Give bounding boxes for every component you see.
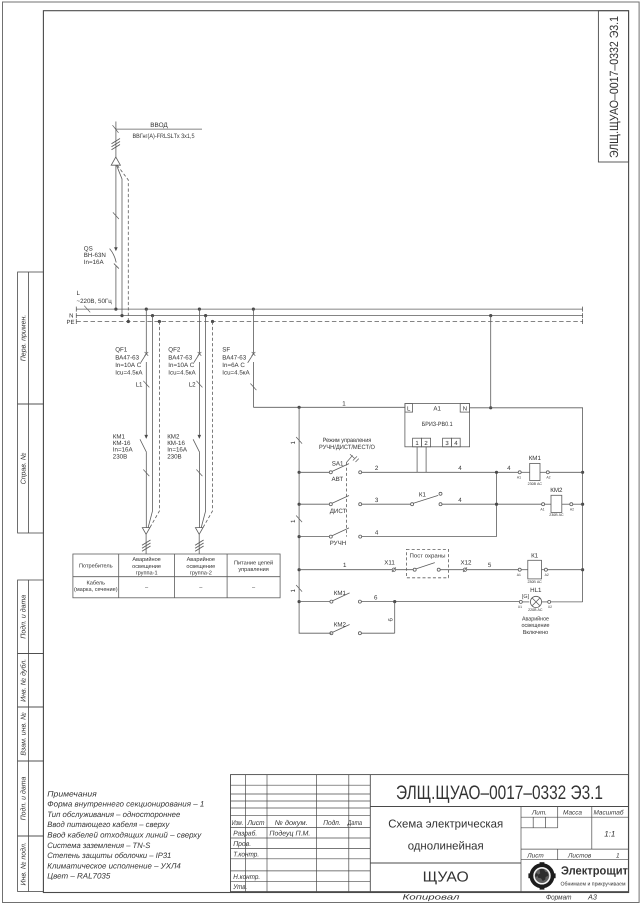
svg-text:1: 1 (290, 589, 297, 593)
feeder group 2: wire L from bus (198, 309, 200, 354)
svg-text:управления: управления (238, 567, 269, 573)
feeder group 1: wire L from bus (145, 309, 147, 354)
svg-text:Аварийное: Аварийное (522, 615, 550, 622)
lit table labels (526, 810, 624, 860)
svg-text:КМ1: КМ1 (334, 590, 347, 597)
node wire1 label (342, 400, 346, 407)
svg-text:КМ2: КМ2 (550, 487, 563, 494)
wire N feeder1 (148, 316, 152, 528)
wire row3 to KM2 coil (497, 503, 542, 505)
svg-text:Перв. примен.: Перв. примен. (21, 315, 28, 362)
svg-text:L2: L2 (189, 382, 196, 389)
wire mark tick on input (113, 212, 119, 219)
svg-text:SF: SF (222, 347, 230, 354)
svg-text:ВН-63N: ВН-63N (84, 252, 106, 259)
svg-text:К1: К1 (531, 553, 539, 560)
wire row7 up to row6 (394, 602, 396, 634)
svg-text:освещение: освещение (132, 564, 161, 570)
wire mark tick feeder1 (143, 470, 149, 477)
svg-text:КМ2: КМ2 (334, 622, 347, 629)
label KM1 (113, 433, 134, 460)
breaker QF1 (141, 352, 149, 438)
label lamp function (522, 615, 551, 635)
svg-text:5: 5 (488, 562, 492, 569)
wire N branch from termination (117, 165, 123, 315)
svg-text:4: 4 (458, 497, 462, 504)
svg-text:освещение: освещение (522, 623, 551, 629)
svg-text:PE: PE (66, 319, 74, 326)
cable exit triangle feeder1 (142, 528, 150, 554)
svg-text:Цвет – RAL7035: Цвет – RAL7035 (47, 872, 111, 881)
svg-text:Формат: Формат (546, 893, 572, 902)
label QS (84, 246, 106, 267)
svg-text:SA1: SA1 (332, 460, 344, 467)
node ВВОД label line (113, 125, 203, 133)
label QF2 (168, 347, 196, 377)
contact SA1 ДИСТ (row 3) (299, 496, 411, 506)
svg-text:Х2: Х2 (548, 605, 552, 609)
change table rows (231, 785, 371, 881)
svg-text:4: 4 (375, 529, 379, 536)
svg-text:ЭЛЩ.ЩУАО–0017–0332 Э3.1: ЭЛЩ.ЩУАО–0017–0332 Э3.1 (607, 16, 621, 158)
svg-text:Х1: Х1 (518, 605, 522, 609)
svg-text:Х12: Х12 (460, 560, 472, 567)
label SF (222, 347, 250, 377)
svg-text:N: N (463, 406, 467, 413)
svg-text:Дата: Дата (347, 820, 362, 827)
svg-text:Электрощит: Электрощит (561, 864, 628, 878)
svg-text:Подп.: Подп. (323, 819, 341, 827)
name cell divider (370, 862, 521, 864)
svg-text:Лит.: Лит. (531, 810, 547, 817)
SA1 link line (dashed) (345, 463, 347, 537)
svg-text:1: 1 (343, 562, 347, 569)
svg-text:In=6А C: In=6А C (222, 362, 245, 369)
svg-text:QF2: QF2 (168, 347, 181, 354)
label L bus (77, 290, 113, 305)
wire PE feeder2 (dashed) (203, 322, 213, 528)
wire input L vertical (115, 122, 117, 158)
svg-text:КМ1: КМ1 (529, 455, 542, 462)
wire A1 pin1 down (416, 447, 418, 473)
svg-text:4: 4 (507, 465, 511, 472)
vertical tie net 4 (496, 472, 498, 536)
svg-text:Схема электрическая: Схема электрическая (388, 819, 503, 831)
svg-text:In=16А: In=16А (84, 259, 105, 266)
svg-text:230В: 230В (113, 453, 127, 460)
svg-text:Взам. инв. №: Взам. инв. № (21, 712, 28, 756)
svg-text:ВВГнг(А)-FRLSLТх 3х1,5: ВВГнг(А)-FRLSLТх 3х1,5 (133, 133, 195, 140)
contact SA1 РУЧН (row 4) (299, 528, 496, 538)
svg-text:А1: А1 (540, 507, 544, 511)
cable входной hatch (112, 139, 121, 150)
svg-text:группа-1: группа-1 (136, 570, 158, 576)
svg-text:Изм.: Изм. (232, 820, 244, 827)
svg-text:Ввод питающего кабеля – сверху: Ввод питающего кабеля – сверху (47, 820, 170, 829)
wire 2 (417, 471, 496, 473)
svg-text:Icu=4.5кА: Icu=4.5кА (222, 370, 250, 377)
svg-text:Т.контр.: Т.контр. (233, 851, 259, 858)
wire PE feeder1 (dashed) (150, 322, 160, 528)
svg-text:Утв.: Утв. (232, 884, 247, 891)
security post contact (396, 563, 463, 572)
svg-text:А2: А2 (545, 573, 549, 577)
svg-text:ВА47-63: ВА47-63 (222, 354, 246, 361)
node L2 (196, 381, 202, 388)
security post dashed box (407, 549, 449, 577)
svg-text:Инв. № дубл.: Инв. № дубл. (20, 659, 28, 702)
svg-text:Система заземления – TN-S: Система заземления – TN-S (47, 841, 151, 850)
left control rail (net 1) (299, 407, 331, 633)
bus PE (dashed) (76, 319, 582, 324)
lamp HL1 (519, 596, 582, 607)
wire 1 horizontal to A1 (253, 406, 405, 408)
svg-text:Х11: Х11 (384, 560, 395, 567)
svg-text:Подеуц П.М.: Подеуц П.М. (269, 830, 310, 838)
svg-text:ДИСТ: ДИСТ (330, 508, 347, 515)
svg-text:Примечания: Примечания (47, 789, 97, 798)
svg-text:230В АС: 230В АС (528, 482, 543, 486)
svg-text:In=10А C: In=10А C (168, 362, 195, 369)
cable termination triangle (111, 157, 120, 165)
breaker QF2 (194, 352, 202, 438)
header labels (232, 819, 362, 827)
svg-text:1: 1 (342, 400, 346, 407)
svg-text:А1: А1 (517, 573, 521, 577)
junction dot N rail (489, 406, 492, 409)
svg-text:Н.контр.: Н.контр. (233, 874, 260, 881)
svg-text:230В АС: 230В АС (549, 513, 564, 517)
node L1 (143, 381, 149, 388)
wire mark ticks on rail (296, 437, 302, 592)
svg-text:А1: А1 (517, 476, 521, 480)
wire to K1 coil (467, 569, 518, 571)
svg-text:Подп. и дата: Подп. и дата (20, 595, 28, 639)
svg-text:Масса: Масса (563, 810, 582, 817)
wire N bus to N rail (490, 316, 492, 408)
wire mark tick feeder2 (196, 470, 202, 477)
consumers table (73, 554, 280, 598)
svg-text:ВА47-63: ВА47-63 (115, 354, 139, 361)
title block outline (231, 775, 629, 892)
svg-text:АВТ: АВТ (332, 476, 344, 483)
svg-text:ВВОД: ВВОД (150, 122, 168, 129)
wire N rail horizontal and right rail (470, 408, 583, 602)
svg-text:1: 1 (290, 519, 297, 523)
svg-text:(марка, сечение): (марка, сечение) (74, 586, 118, 593)
svg-text:1:1: 1:1 (604, 830, 615, 839)
svg-text:~220В, 50Гц: ~220В, 50Гц (77, 298, 113, 305)
svg-text:Справ. №: Справ. № (21, 452, 28, 484)
svg-text:Потребитель: Потребитель (79, 563, 113, 570)
svg-text:Лист: Лист (247, 820, 265, 827)
svg-text:2: 2 (375, 465, 379, 472)
wire mark tick on L bus (84, 306, 90, 313)
switch QS (110, 247, 119, 309)
svg-text:Лист: Лист (526, 852, 544, 859)
svg-text:Подп. и дата: Подп. и дата (20, 776, 28, 820)
svg-text:1: 1 (290, 441, 297, 445)
wire mark tick SF (250, 384, 256, 391)
wire A1 pin2 down (425, 447, 427, 473)
bottom margin labels (403, 893, 597, 902)
label PE bus (66, 319, 74, 326)
relay contact K1 (row 3) (411, 492, 497, 505)
wire N feeder2 (201, 316, 205, 528)
svg-text:А1: А1 (433, 405, 441, 412)
svg-text:Включено: Включено (523, 629, 549, 636)
svg-text:ВА47-63: ВА47-63 (168, 354, 192, 361)
wire L down to QS (115, 165, 117, 249)
svg-text:[G]: [G] (522, 594, 530, 600)
svg-text:Питание цепей: Питание цепей (234, 560, 273, 567)
terminal X12 (463, 567, 467, 572)
contactor coil KM2 (542, 495, 583, 512)
contact KM1 aux (330, 593, 519, 603)
row 7: contact KM2 aux (330, 625, 395, 635)
bus L (76, 307, 582, 312)
svg-text:Кабель: Кабель (86, 580, 105, 587)
row 5: wire net1 to X11 (299, 569, 392, 571)
svg-text:HL1: HL1 (530, 587, 542, 594)
svg-text:К1: К1 (419, 492, 427, 499)
svg-text:Копировал: Копировал (403, 893, 461, 902)
junction dots on buses (114, 308, 492, 324)
name of drawing (388, 819, 503, 853)
label QF1 (115, 347, 143, 377)
logo Электрощит (528, 862, 555, 889)
change table columns (245, 775, 247, 892)
svg-text:А3: А3 (587, 893, 597, 902)
breaker SF (248, 352, 256, 407)
svg-text:освещение: освещение (186, 564, 215, 570)
junction dot row6 (393, 600, 396, 603)
relay coil K1 (518, 560, 582, 579)
svg-text:Icu=4.5кА: Icu=4.5кА (168, 370, 196, 377)
svg-text:Листов: Листов (567, 852, 592, 859)
cable hatch feeder1 (142, 540, 151, 551)
svg-text:Icu=4.5кА: Icu=4.5кА (115, 370, 143, 377)
svg-text:Разраб.: Разраб. (233, 830, 257, 838)
contactor KM2 main contact (193, 435, 201, 528)
top-right designation strip (598, 11, 628, 162)
svg-text:L: L (77, 290, 81, 297)
svg-text:Пост охраны: Пост охраны (410, 553, 446, 559)
label Режим управления (319, 437, 375, 451)
svg-text:Форма внутреннего секционирова: Форма внутреннего секционирования – 1 (47, 800, 204, 809)
svg-text:6: 6 (388, 618, 395, 622)
designation row bottom (370, 806, 628, 808)
left margin boxes (18, 272, 44, 892)
svg-text:220В АС: 220В АС (528, 608, 543, 612)
svg-text:Пров.: Пров. (233, 841, 251, 848)
svg-text:Степень защиты оболочки – IP31: Степень защиты оболочки – IP31 (47, 851, 171, 860)
svg-text:Обнимаем и прикручиваем: Обнимаем и прикручиваем (561, 882, 626, 888)
contact SA1 АВТ (row 2) (299, 464, 417, 474)
svg-text:Ввод кабелей отходящих линий –: Ввод кабелей отходящих линий – сверху (47, 831, 202, 840)
bus N (76, 313, 582, 318)
lit/massa/masshtab table (521, 807, 628, 892)
svg-text:А2: А2 (570, 507, 574, 511)
svg-text:230В: 230В (167, 453, 181, 460)
label ВВОД (133, 122, 195, 140)
junction dot rail top (298, 406, 301, 409)
svg-text:Инв. № подл.: Инв. № подл. (20, 842, 28, 885)
relay module A1 (405, 404, 470, 447)
svg-text:Режим управления: Режим управления (323, 437, 372, 444)
svg-text:In=10А C: In=10А C (115, 362, 142, 369)
contactor coil KM1 (518, 463, 582, 480)
svg-text:группа-2: группа-2 (190, 570, 212, 576)
svg-text:Тип обслуживания – односторонн: Тип обслуживания – одностороннее (47, 810, 181, 819)
svg-text:3: 3 (375, 497, 379, 504)
svg-text:ЭЛЩ.ЩУАО–0017–0332 Э3.1: ЭЛЩ.ЩУАО–0017–0332 Э3.1 (396, 782, 603, 804)
svg-text:А2: А2 (546, 476, 550, 480)
svg-text:N: N (69, 313, 73, 320)
terminal X11 (392, 567, 396, 572)
label N bus (69, 313, 73, 320)
junction dots right rail (581, 471, 584, 572)
junction dots left rail (298, 471, 301, 604)
row 6: wire net1 to KM1 aux (299, 601, 330, 603)
svg-text:6: 6 (374, 594, 378, 601)
svg-text:230В АС: 230В АС (527, 580, 542, 584)
svg-text:РУЧН: РУЧН (330, 540, 347, 547)
svg-text:QF1: QF1 (115, 347, 128, 354)
svg-text:ЩУАО: ЩУАО (423, 870, 469, 886)
label SA1 (332, 460, 344, 467)
cable exit triangle feeder2 (195, 528, 203, 554)
wire row2 to KM1 coil (497, 471, 519, 473)
svg-text:РУЧН/ДИСТ/МЕСТ/О: РУЧН/ДИСТ/МЕСТ/О (319, 444, 375, 451)
contactor KM1 main contact (140, 435, 148, 528)
feeder SF: wire from bus (252, 309, 254, 354)
svg-text:однолинейная: однолинейная (408, 841, 484, 853)
cable hatch feeder2 (195, 540, 204, 551)
wire PE branch from termination (dashed) (117, 165, 128, 321)
svg-text:№ докум.: № докум. (275, 819, 308, 827)
svg-text:БРИЗ-РВ0.1: БРИЗ-РВ0.1 (422, 421, 453, 428)
svg-text:1: 1 (616, 852, 620, 859)
svg-text:Масштаб: Масштаб (594, 810, 624, 817)
svg-text:L1: L1 (136, 382, 143, 389)
switch SA1 actuator (346, 454, 358, 462)
svg-text:Аварийное: Аварийное (132, 556, 160, 563)
svg-text:Аварийное: Аварийное (187, 556, 215, 563)
svg-text:Климатическое исполнение – УХЛ: Климатическое исполнение – УХЛ4 (47, 861, 181, 870)
svg-text:4: 4 (458, 465, 462, 472)
label KM2 (167, 433, 188, 460)
